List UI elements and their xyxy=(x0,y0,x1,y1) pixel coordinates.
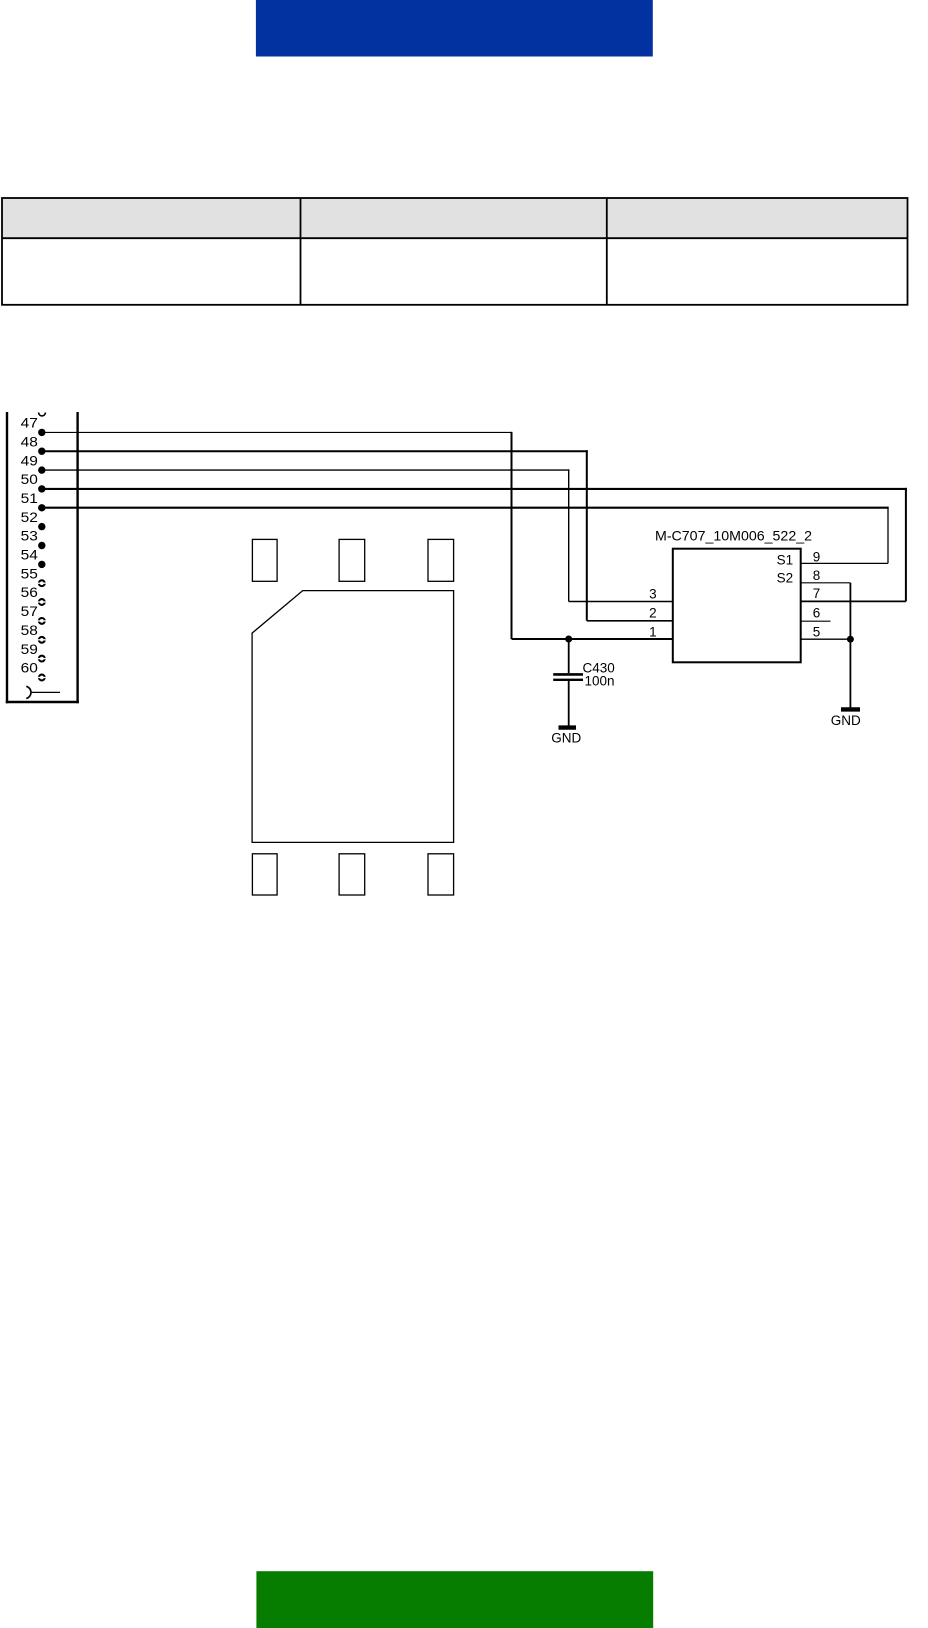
wire net 50 vertical xyxy=(905,488,907,602)
capacitor C430 plates xyxy=(553,673,583,676)
pin 56 open pad xyxy=(38,599,46,605)
svg-text:50: 50 xyxy=(21,471,38,487)
header blue bar xyxy=(256,0,653,57)
svg-text:51: 51 xyxy=(21,490,38,506)
svg-text:1: 1 xyxy=(649,624,657,639)
pin 5 wire xyxy=(801,638,851,640)
svg-text:7: 7 xyxy=(813,586,821,601)
junction at pin 5 xyxy=(847,636,854,643)
svg-text:9: 9 xyxy=(813,550,821,565)
pad bottom-left xyxy=(252,854,277,895)
svg-text:47: 47 xyxy=(21,415,38,431)
svg-text:6: 6 xyxy=(813,606,821,621)
pin 57 open pad xyxy=(38,618,46,624)
wire net 51 to pin 9 xyxy=(801,562,888,564)
SIM card outline xyxy=(252,591,454,843)
svg-text:49: 49 xyxy=(21,452,38,468)
wire net 50 to pin 7 xyxy=(801,600,906,602)
wire net 48 horizontal xyxy=(42,450,588,452)
svg-text:60: 60 xyxy=(21,660,38,676)
wire net 51 vertical xyxy=(887,507,889,564)
svg-text:100n: 100n xyxy=(585,673,615,688)
pin 50 dot xyxy=(38,485,45,492)
pin 8 to ground vertical xyxy=(849,583,851,709)
pin 58 open pad xyxy=(38,637,46,643)
pin 53 dot xyxy=(38,542,45,549)
svg-text:2: 2 xyxy=(649,606,657,621)
pin 48 dot xyxy=(38,448,45,455)
wire net 49 to pin 3 xyxy=(569,601,673,603)
shield contact symbol xyxy=(26,686,60,698)
capacitor C430 lead bottom xyxy=(568,681,570,726)
pin 49 dot xyxy=(38,466,45,473)
connector X1 body xyxy=(6,412,79,703)
svg-text:57: 57 xyxy=(21,603,38,619)
svg-text:3: 3 xyxy=(649,587,657,602)
pin 46 (cut half circle) xyxy=(39,413,46,416)
pin 6 stub xyxy=(801,620,831,622)
pin 60 open pad xyxy=(38,675,46,681)
wire net 49 vertical xyxy=(568,469,570,601)
svg-text:GND: GND xyxy=(551,730,581,745)
wire net 47 horizontal xyxy=(42,431,512,433)
svg-text:GND: GND xyxy=(831,713,861,728)
pin 55 open pad xyxy=(38,580,46,586)
footer green bar xyxy=(256,1571,653,1628)
pad top-middle xyxy=(339,539,365,581)
table header fill xyxy=(2,198,908,238)
svg-text:5: 5 xyxy=(813,624,821,639)
svg-text:55: 55 xyxy=(21,565,38,581)
capacitor C430 lead top xyxy=(568,639,570,673)
wire net 49 horizontal xyxy=(42,469,570,471)
wire net 47 vertical xyxy=(511,432,513,639)
pin 8 wire xyxy=(801,582,851,584)
wire net 51 horizontal xyxy=(42,507,889,509)
svg-text:54: 54 xyxy=(21,547,38,563)
wire net 47 to pin 1 xyxy=(512,638,673,640)
svg-text:S1: S1 xyxy=(777,553,794,568)
junction node at C430 xyxy=(565,636,572,643)
wire net 48 to pin 2 xyxy=(587,620,673,622)
svg-text:S2: S2 xyxy=(777,570,794,585)
pad top-left xyxy=(252,539,277,581)
pin 52 dot xyxy=(38,523,45,530)
pin 47 dot xyxy=(38,429,45,436)
IC U1 M-C707_10M006_522_2 box xyxy=(673,549,801,663)
svg-text:48: 48 xyxy=(21,433,38,449)
wire net 48 vertical xyxy=(586,450,588,621)
pad bottom-middle xyxy=(339,854,365,895)
pad top-right xyxy=(428,539,454,581)
table borders xyxy=(2,198,908,305)
svg-text:58: 58 xyxy=(21,622,38,638)
svg-text:56: 56 xyxy=(21,584,38,600)
svg-text:M-C707_10M006_522_2: M-C707_10M006_522_2 xyxy=(655,528,812,544)
ground bar (right GND) xyxy=(841,707,860,711)
pin 54 dot xyxy=(38,561,45,568)
svg-text:59: 59 xyxy=(21,641,38,657)
wire net 50 horizontal xyxy=(42,488,907,490)
pin 59 open pad xyxy=(38,656,46,662)
pin 51 dot xyxy=(38,504,45,511)
svg-text:8: 8 xyxy=(813,568,821,583)
svg-text:52: 52 xyxy=(21,509,38,525)
ground bar (left GND) xyxy=(559,725,577,729)
pad bottom-right xyxy=(428,854,454,895)
svg-text:53: 53 xyxy=(21,528,38,544)
